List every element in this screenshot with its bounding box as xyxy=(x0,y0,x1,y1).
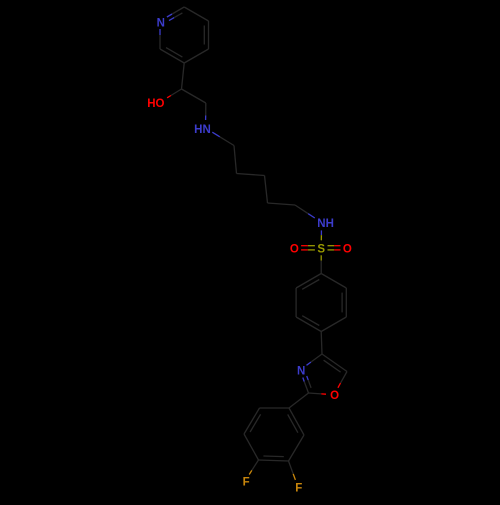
bond B1-B2 xyxy=(321,274,346,289)
svg-text:F: F xyxy=(295,483,302,495)
bond C5p-Ca xyxy=(182,63,185,89)
bond D6-D1 xyxy=(260,407,290,409)
bond C5p-C6p xyxy=(160,48,184,63)
svg-text:HO: HO xyxy=(147,98,164,110)
bond B3-B4 xyxy=(321,317,346,332)
svg-text:O: O xyxy=(343,244,352,256)
bond C2p-C3p xyxy=(184,7,208,21)
bond B6-B1 xyxy=(296,274,321,290)
bond Ca-Oh xyxy=(167,89,181,98)
bond Np-C2p xyxy=(167,7,184,21)
bond C2x-D1 xyxy=(289,393,309,408)
bond B4-C4x xyxy=(320,332,323,355)
bond B4-B5 xyxy=(296,316,321,332)
bond S-B1 xyxy=(320,255,322,273)
bond C4x-C5x xyxy=(322,354,347,372)
svg-text:N: N xyxy=(297,365,305,377)
bond Cc1-Cc2 xyxy=(234,146,237,174)
bond C2x-N3x xyxy=(303,376,311,393)
svg-text:F: F xyxy=(243,477,250,489)
bond O1x-C2x xyxy=(309,393,327,394)
bond N1-Cc1 xyxy=(212,132,234,145)
bond Ca-Cb xyxy=(182,89,206,103)
bond N2-S xyxy=(320,230,322,240)
bond D3-D4 xyxy=(259,456,289,461)
bond B2-B3 xyxy=(342,288,346,317)
bond C6p-Np xyxy=(159,29,161,49)
bond N3x-C4x xyxy=(307,354,323,365)
bond B5-B6 xyxy=(295,288,297,317)
bond D1-D2 xyxy=(288,408,304,435)
svg-text:N: N xyxy=(157,18,165,30)
svg-text:O: O xyxy=(330,390,339,402)
bond D5-D6 xyxy=(244,408,261,434)
bond Cc3-Cc4 xyxy=(265,176,268,204)
svg-text:NH: NH xyxy=(317,218,334,230)
bond C5x-O1x xyxy=(338,372,347,388)
bond S-Or xyxy=(328,246,341,250)
bond C4p-C5p xyxy=(184,49,208,63)
bond C3p-C4p xyxy=(204,21,208,49)
svg-text:HN: HN xyxy=(194,124,211,136)
svg-text:S: S xyxy=(317,244,325,256)
bond D4-D5 xyxy=(244,434,259,460)
bond Cb-N1 xyxy=(205,103,207,120)
bond Cc2-Cc3 xyxy=(237,174,265,176)
bond D2-D3 xyxy=(289,435,305,461)
svg-text:O: O xyxy=(290,244,299,256)
bond D4-F1 xyxy=(249,460,258,475)
bond D3-F2 xyxy=(289,461,296,480)
bond S-Ol xyxy=(301,246,315,250)
bond Cc5-N2 xyxy=(295,205,315,218)
bond Cc4-Cc5 xyxy=(268,203,296,205)
